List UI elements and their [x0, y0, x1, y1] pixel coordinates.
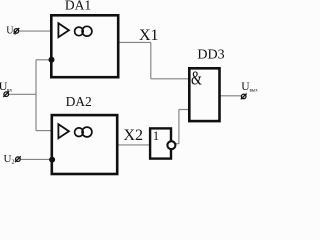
wire X1 horizontal from DA1 output: [119, 41, 151, 43]
svg-text:1: 1: [153, 129, 159, 143]
wire X1 into DD3 input 1: [151, 78, 189, 80]
wire DD3 output to Uout terminal: [220, 95, 241, 97]
svg-text:DA2: DA2: [66, 94, 92, 109]
wire vertical bus: [35, 60, 37, 131]
terminal Uout: [241, 94, 247, 100]
svg-text:X2: X2: [124, 127, 144, 144]
wire from inverter bubble: [176, 143, 179, 145]
svg-text:DA1: DA1: [65, 0, 91, 12]
junction dot at DA2 lower input: [49, 157, 55, 163]
wire into DD3 input 2: [179, 109, 189, 111]
svg-text:X1: X1: [139, 27, 159, 44]
wire U1 to DA1: [20, 30, 51, 32]
terminal U2: [15, 156, 21, 162]
wire X1 vertical drop: [150, 42, 152, 78]
wire X2 from DA2 output to inverter: [118, 144, 150, 146]
comparator DA1 box with amplifier triangle and infinity symbol: [51, 15, 118, 77]
terminal U1: [14, 28, 20, 34]
inverter gate box: [150, 128, 171, 158]
comparator DA2 box with amplifier triangle and infinity symbol: [52, 115, 117, 174]
svg-text:DD3: DD3: [197, 48, 224, 63]
wire vertical rise to DD3: [178, 110, 180, 144]
svg-text:&: &: [191, 68, 202, 90]
wire bus to DA2 upper input: [36, 130, 51, 132]
wire bus to DA1 lower input: [36, 59, 51, 61]
inverter output bubble: [167, 141, 175, 149]
junction dot at DA1 lower input: [49, 57, 55, 63]
terminal Uin: [3, 91, 9, 97]
wire U2 to DA2: [21, 158, 51, 160]
AND gate DD3 box: [189, 68, 219, 121]
wire Uin to vertical bus: [9, 93, 36, 95]
